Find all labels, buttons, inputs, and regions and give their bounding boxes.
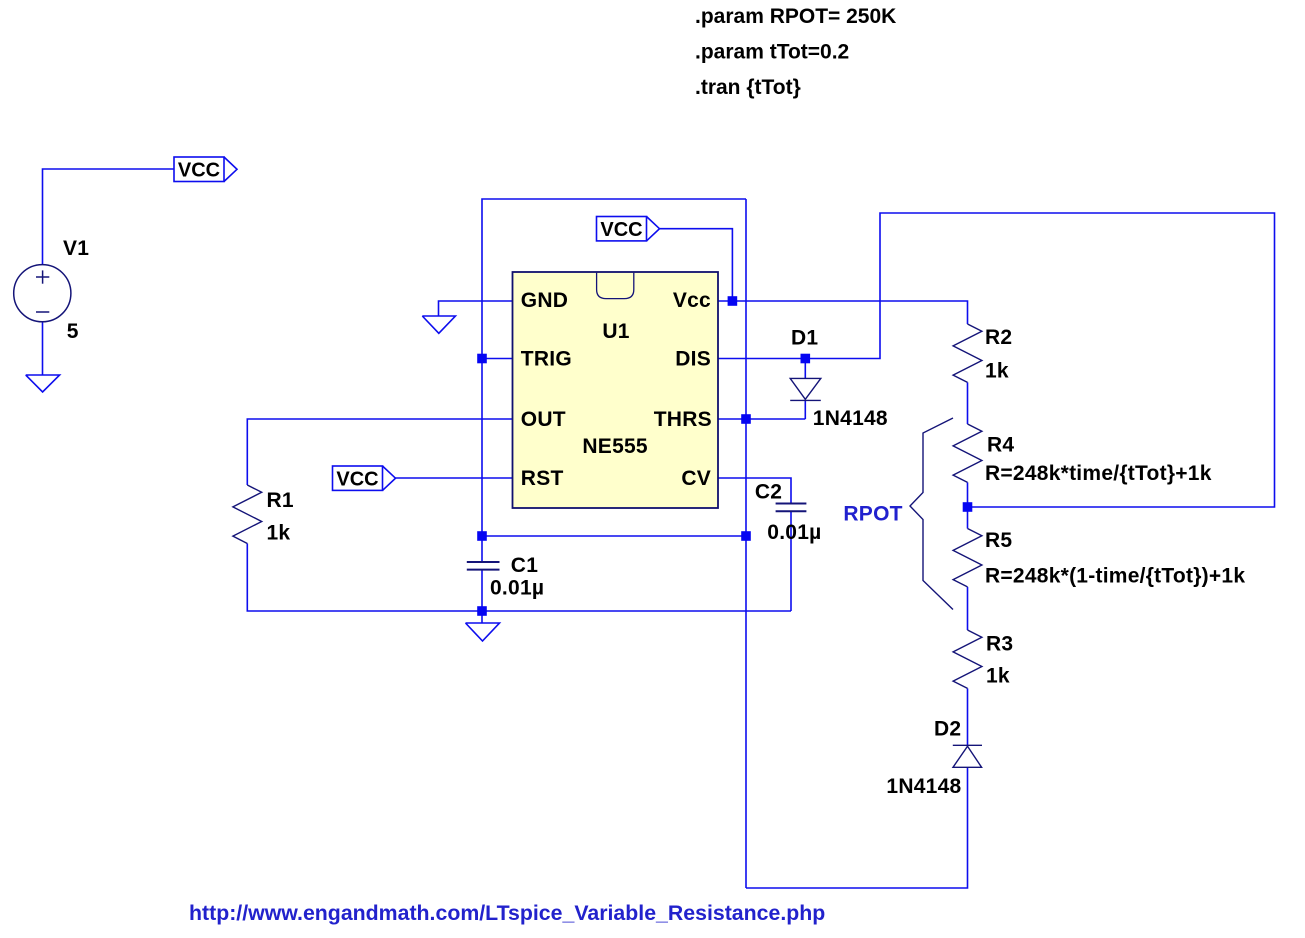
junction D1 anode xyxy=(801,354,811,364)
svg-text:R1: R1 xyxy=(267,489,294,512)
wire VCC flag to Vcc pin xyxy=(660,229,733,301)
svg-text:R=248k*(1-time/{tTot})+1k: R=248k*(1-time/{tTot})+1k xyxy=(985,565,1245,588)
svg-text:R5: R5 xyxy=(985,529,1012,552)
wire R1 bottom to C2 bottom xyxy=(247,544,791,612)
svg-text:OUT: OUT xyxy=(521,408,566,431)
svg-text:VCC: VCC xyxy=(178,159,220,181)
net flag VCC at RST xyxy=(333,466,396,490)
svg-text:1k: 1k xyxy=(985,360,1009,383)
svg-text:C1: C1 xyxy=(511,554,538,577)
wire D1 top lead xyxy=(804,359,806,379)
wire C2 bottom lead xyxy=(790,511,792,611)
svg-text:0.01µ: 0.01µ xyxy=(490,577,544,600)
wire C1 bottom lead xyxy=(481,570,483,611)
svg-text:TRIG: TRIG xyxy=(521,348,572,371)
svg-text:R3: R3 xyxy=(986,633,1013,656)
wire TRIG stub xyxy=(482,358,512,360)
wire ground stem below C1 xyxy=(481,611,483,623)
wire V1 top to VCC flag xyxy=(43,169,175,265)
wire C1 link TRIG to THRS net xyxy=(482,535,746,537)
svg-text:Vcc: Vcc xyxy=(673,289,711,312)
wire R4 to R5 through wiper xyxy=(967,482,969,528)
svg-text:.param tTot=0.2: .param tTot=0.2 xyxy=(695,41,849,64)
svg-text:1k: 1k xyxy=(267,522,291,545)
svg-text:R4: R4 xyxy=(987,434,1014,457)
resistor R2 xyxy=(953,324,982,382)
wire D2 bottom loop xyxy=(746,767,968,888)
svg-text:RPOT: RPOT xyxy=(843,503,902,526)
capacitor C1 xyxy=(467,562,500,570)
RPOT brace xyxy=(910,418,953,610)
wire RST from VCC flag xyxy=(396,477,513,479)
resistor R3 xyxy=(953,630,982,688)
wire Vcc pin to R2 xyxy=(718,301,968,324)
svg-text:THRS: THRS xyxy=(654,408,712,431)
resistor R1 xyxy=(233,485,262,544)
wire GND pin to ground xyxy=(439,301,513,316)
svg-text:1k: 1k xyxy=(986,665,1010,688)
svg-text:5: 5 xyxy=(67,320,79,343)
svg-text:1N4148: 1N4148 xyxy=(886,775,961,798)
svg-text:1N4148: 1N4148 xyxy=(813,407,888,430)
junction C1 bottom xyxy=(477,606,487,616)
ground below C1 xyxy=(466,623,500,641)
svg-text:CV: CV xyxy=(681,467,711,490)
svg-text:.tran {tTot}: .tran {tTot} xyxy=(695,76,801,99)
wire DIS loop to wiper xyxy=(718,213,1275,507)
wire V1 bottom to ground xyxy=(42,322,44,376)
wire R3 to D2 xyxy=(967,688,969,745)
junction TRIG xyxy=(477,354,487,364)
svg-text:V1: V1 xyxy=(63,237,89,260)
voltage source V1 xyxy=(14,265,71,322)
ground below V1 xyxy=(26,375,60,392)
wire D1 bottom lead xyxy=(804,400,806,419)
diode D1 xyxy=(790,378,821,400)
svg-text:GND: GND xyxy=(521,289,568,312)
svg-text:VCC: VCC xyxy=(600,219,642,241)
svg-text:DIS: DIS xyxy=(675,348,711,371)
svg-text:http://www.engandmath.com/LTsp: http://www.engandmath.com/LTspice_Variab… xyxy=(189,901,825,925)
op-amp U1 NE555 body xyxy=(513,272,719,508)
wire right vertical x746 xyxy=(745,199,747,888)
resistor R4 xyxy=(953,424,982,482)
junction THRS xyxy=(741,414,751,424)
net flag VCC above chip xyxy=(597,217,660,241)
svg-text:R2: R2 xyxy=(985,326,1012,349)
wire C1 top lead xyxy=(481,536,483,562)
capacitor C2 xyxy=(776,504,807,512)
diode D2 xyxy=(953,745,982,767)
wire R2 to R4 xyxy=(967,382,969,424)
wire R5 to R3 xyxy=(967,587,969,630)
resistor R5 xyxy=(953,529,982,587)
wire OUT to R1 xyxy=(247,419,512,485)
svg-text:0.01µ: 0.01µ xyxy=(767,521,821,544)
junction C1 top xyxy=(477,531,487,541)
wire CV to C2 xyxy=(718,478,791,504)
svg-text:D1: D1 xyxy=(791,327,818,350)
wire THRS to D1 xyxy=(718,418,805,420)
svg-text:.param RPOT= 250K: .param RPOT= 250K xyxy=(695,5,896,28)
svg-text:VCC: VCC xyxy=(336,468,378,490)
svg-text:R=248k*time/{tTot}+1k: R=248k*time/{tTot}+1k xyxy=(985,462,1212,485)
junction wiper xyxy=(963,502,973,512)
svg-text:RST: RST xyxy=(521,467,564,490)
svg-text:C2: C2 xyxy=(755,481,782,504)
wire top loop left vertical (TRIG net) xyxy=(482,199,746,536)
net flag VCC near V1 xyxy=(174,157,237,182)
svg-text:D2: D2 xyxy=(934,718,961,741)
junction link x746 xyxy=(741,531,751,541)
ground at GND pin xyxy=(422,316,455,333)
junction Vcc pin xyxy=(728,296,738,306)
svg-text:NE555: NE555 xyxy=(582,435,648,458)
svg-text:U1: U1 xyxy=(602,320,629,343)
